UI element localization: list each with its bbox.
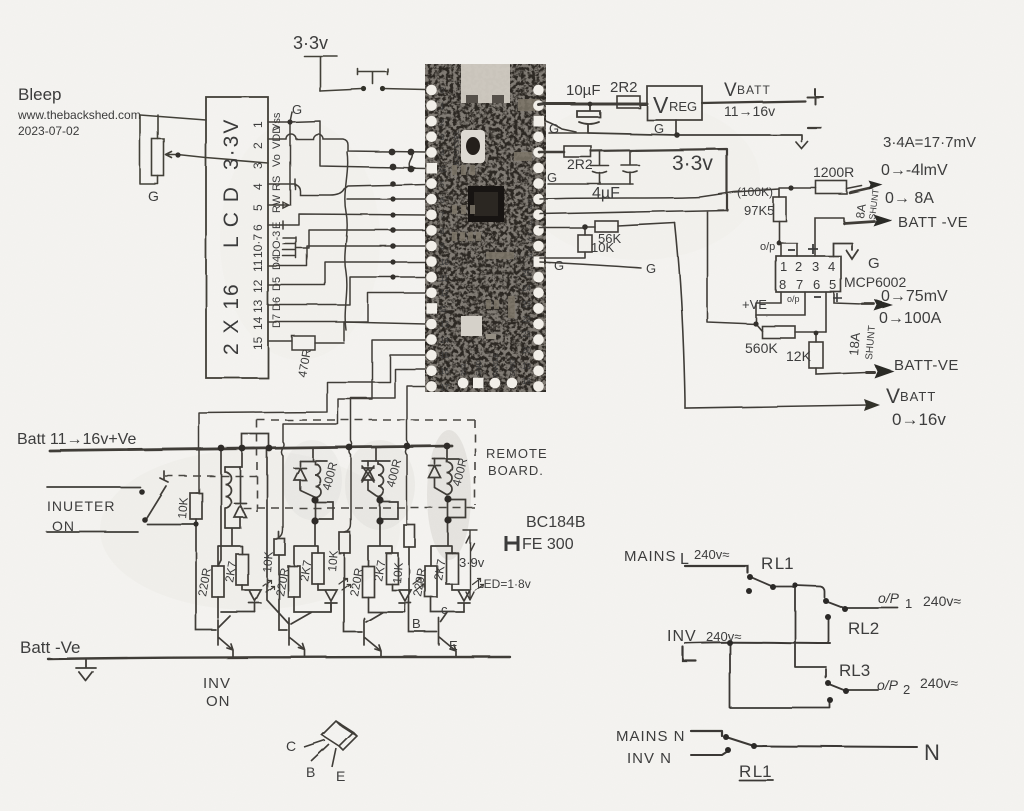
svg-text:10K: 10K	[591, 240, 614, 255]
svg-text:o/P: o/P	[877, 677, 899, 693]
bootsel button	[461, 130, 485, 163]
svg-text:GND: GND	[476, 360, 483, 376]
svg-text:1: 1	[905, 596, 912, 611]
arrow BATT-VE bottom	[866, 371, 874, 374]
3.3V supply bar	[304, 56, 337, 91]
LCD module box	[206, 97, 268, 378]
vreg box U2	[647, 86, 702, 120]
wire VREG ground rail	[589, 120, 808, 149]
wire pin5 to 75mV arrow	[834, 292, 862, 304]
wire D7 to pad12	[268, 293, 426, 322]
wire rl2 lower to inv	[827, 618, 829, 643]
relay contact RL2	[826, 601, 898, 609]
svg-text:(100K): (100K)	[737, 185, 773, 199]
wire RS to pad5	[295, 184, 426, 195]
svg-text:E: E	[336, 768, 345, 784]
resistor 10K right	[578, 235, 592, 252]
wire switch to 10K base	[147, 523, 196, 525]
svg-text:2023-07-02: 2023-07-02	[18, 124, 80, 138]
svg-text:13: 13	[440, 320, 449, 329]
svg-text:12: 12	[251, 279, 265, 293]
svg-text:L C D: L C D	[220, 185, 243, 248]
svg-text:G: G	[547, 170, 557, 185]
svg-text:BATT-VE: BATT-VE	[894, 357, 959, 374]
svg-text:3·9v: 3·9v	[459, 555, 485, 570]
junction dots left bundle	[175, 119, 414, 279]
cell2 coil feed	[312, 448, 314, 461]
svg-text:23: 23	[522, 300, 531, 309]
LED cell1	[242, 585, 261, 612]
relay contact RL3	[828, 684, 878, 692]
LCD signal names column	[271, 112, 283, 328]
svg-text:BC184B: BC184B	[526, 514, 586, 531]
pico left pin labels	[440, 86, 449, 392]
wire 12K to BATT-VE arrow	[816, 368, 866, 374]
minus pin6	[814, 296, 821, 298]
wavy bus vertical	[345, 152, 348, 330]
svg-text:24: 24	[522, 284, 531, 293]
svg-text:C: C	[286, 738, 296, 754]
cell4 bottoms to collector	[431, 597, 464, 622]
svg-text:560K: 560K	[745, 340, 778, 356]
led arrows cell3	[413, 578, 424, 590]
LED cell3	[392, 584, 411, 612]
svg-text:3·4A=17·7mV: 3·4A=17·7mV	[883, 134, 976, 151]
wire rl1 to rl2	[795, 585, 824, 597]
svg-text:0: 0	[440, 86, 445, 95]
resistor 1200R	[816, 181, 847, 194]
relay coil RL4	[433, 459, 459, 495]
svg-text:3·3V: 3·3V	[220, 118, 243, 170]
RL1 underline	[739, 779, 773, 781]
svg-text:G: G	[868, 255, 880, 272]
svg-text:11: 11	[251, 259, 265, 272]
hFE symbol	[506, 536, 518, 551]
resistor 2K7 cell4	[446, 553, 458, 584]
LED cell2	[318, 584, 337, 612]
svg-text:G: G	[549, 121, 559, 136]
resistor 2K7 cell3	[386, 553, 398, 584]
svg-text:17: 17	[440, 383, 449, 392]
resistor 12K	[809, 342, 823, 368]
wire pot top rail	[140, 115, 206, 139]
wire 470R to pad13	[315, 322, 426, 343]
svg-text:8: 8	[779, 277, 786, 292]
svg-text:5: 5	[440, 180, 445, 189]
svg-text:LED=1·8v: LED=1·8v	[477, 577, 531, 591]
crystal white chip	[461, 316, 482, 336]
svg-text:0→ 8A: 0→ 8A	[885, 190, 934, 207]
svg-text:INV: INV	[203, 675, 231, 692]
resistor 97K5	[773, 197, 786, 221]
svg-text:12K: 12K	[786, 348, 812, 364]
svg-text:RL3: RL3	[839, 661, 870, 680]
svg-text:B: B	[306, 764, 315, 780]
resistor 470R	[292, 336, 315, 350]
small components	[452, 99, 540, 318]
minus symbol	[808, 127, 821, 129]
svg-text:1: 1	[440, 102, 445, 111]
wire E to pad7	[283, 214, 426, 225]
svg-text:10·7: 10·7	[251, 234, 265, 258]
svg-text:6: 6	[251, 224, 265, 231]
wire to G label	[540, 262, 641, 268]
svg-text:7: 7	[796, 277, 803, 292]
relay junction dots	[723, 574, 849, 753]
transistor Q2	[289, 618, 305, 657]
svg-text:2R2: 2R2	[610, 79, 638, 96]
svg-text:Bleep: Bleep	[18, 85, 61, 104]
svg-text:240v≈: 240v≈	[920, 675, 958, 691]
pico bottom silk labels	[461, 353, 517, 378]
resistor 10K cell3	[339, 532, 350, 553]
wire VSYS thick to VREG	[539, 104, 647, 105]
svg-text:Batt 11→16v+Ve: Batt 11→16v+Ve	[17, 431, 136, 448]
svg-text:11: 11	[440, 274, 449, 283]
svg-text:1: 1	[251, 121, 265, 128]
wire inv N	[691, 751, 728, 755]
rail notch	[242, 434, 269, 448]
left pads column	[426, 85, 437, 392]
svg-text:5: 5	[829, 277, 836, 292]
wire Vss stub	[268, 112, 292, 122]
wire mains L	[685, 566, 748, 573]
wire 4uF ground	[548, 183, 633, 185]
diode D3	[362, 461, 378, 497]
cell2 middle wire	[294, 521, 318, 566]
wire pad B to +Ve	[540, 210, 756, 324]
wire pad A to 97K5 top	[540, 189, 779, 199]
svg-text:3: 3	[812, 259, 819, 274]
svg-text:MAINS: MAINS	[624, 548, 677, 565]
svg-text:25: 25	[522, 269, 531, 278]
svg-text:240v≈: 240v≈	[694, 547, 729, 562]
wire pin7 o/p	[756, 292, 805, 315]
arrow BATT-VE top	[844, 221, 874, 223]
wire pin8 +Ve	[756, 292, 781, 324]
wire wiper to LCD Vo	[178, 155, 268, 163]
svg-text:22: 22	[522, 315, 531, 324]
potentiometer RV1 body	[152, 139, 164, 176]
svg-text:4: 4	[828, 259, 835, 274]
led arrows cell1	[263, 580, 274, 592]
svg-text:15: 15	[251, 336, 265, 350]
svg-text:VDD: VDD	[271, 126, 283, 149]
wire Batt +Ve rail	[50, 446, 452, 451]
svg-text:10: 10	[440, 258, 449, 267]
svg-text:6: 6	[440, 196, 445, 205]
LED cell4	[452, 584, 470, 612]
svg-text:12: 12	[440, 289, 449, 298]
svg-text:4: 4	[251, 183, 265, 190]
transistor Q3	[364, 618, 381, 657]
svg-text:240v≈: 240v≈	[706, 629, 741, 644]
cell1 coil feed	[225, 448, 242, 467]
svg-text:R L1: R L1	[739, 762, 772, 781]
usb connector	[461, 64, 510, 103]
wire D5 to pad10	[268, 262, 426, 285]
svg-text:D4: D4	[271, 256, 283, 270]
wire mains N	[691, 731, 722, 736]
svg-text:FE 300: FE 300	[522, 536, 574, 553]
wire pin6	[816, 292, 826, 342]
wire pad15 staircase to cell1	[196, 355, 426, 493]
svg-text:V: V	[653, 92, 669, 118]
svg-text:3·3v: 3·3v	[293, 33, 328, 53]
svg-text:10K: 10K	[390, 562, 406, 584]
svg-text:14: 14	[251, 316, 265, 330]
cell2 bump	[315, 500, 333, 520]
svg-text:REMOTE: REMOTE	[486, 446, 548, 461]
capacitor 4uF a	[591, 151, 609, 184]
relay contact RL1	[750, 577, 795, 587]
svg-text:o/p: o/p	[787, 294, 800, 304]
wire RW stub	[268, 202, 289, 208]
resistor 56K	[595, 221, 618, 232]
svg-text:ON: ON	[52, 518, 75, 534]
svg-text:13: 13	[251, 299, 265, 313]
svg-text:G: G	[292, 102, 302, 117]
svg-text:E: E	[449, 638, 458, 653]
svg-text:10K: 10K	[325, 550, 341, 572]
svg-text:10K: 10K	[175, 497, 191, 519]
wire pot left loop	[140, 115, 158, 184]
wire 3V3 thick	[539, 151, 564, 154]
wire D0-3 comb	[283, 237, 296, 258]
svg-text:RW: RW	[271, 194, 283, 213]
button contact dots	[361, 86, 366, 91]
svg-text:7: 7	[440, 211, 445, 220]
cell3 coil feed	[375, 448, 377, 461]
svg-text:10µF: 10µF	[566, 82, 601, 99]
svg-text:3·3v: 3·3v	[672, 152, 713, 175]
diode D2	[294, 461, 315, 497]
junction dots rail	[139, 443, 451, 527]
svg-text:14: 14	[440, 336, 449, 345]
svg-text:D7: D7	[271, 314, 283, 328]
wire Vss to G pad	[290, 121, 426, 168]
svg-text:G: G	[554, 258, 564, 273]
svg-text:c: c	[441, 602, 448, 617]
op-amp MCP6002 box U1	[776, 256, 841, 292]
svg-text:240v≈: 240v≈	[923, 593, 961, 609]
resistor 2K7 cell2	[312, 553, 324, 584]
svg-text:3: 3	[251, 162, 265, 169]
resistor 10K cell1	[190, 493, 202, 519]
svg-text:o/p: o/p	[760, 241, 775, 253]
svg-text:1: 1	[780, 259, 787, 274]
ground vertical to RW	[283, 122, 290, 205]
svg-text:15: 15	[440, 351, 449, 360]
resistor 220R cell2	[288, 566, 300, 597]
svg-text:G: G	[654, 121, 664, 136]
svg-text:INUETER: INUETER	[47, 498, 115, 514]
svg-text:4: 4	[440, 149, 445, 158]
svg-text:97K5: 97K5	[744, 203, 774, 218]
svg-text:4µF: 4µF	[592, 185, 620, 202]
measure 3-9V arrow	[463, 530, 477, 600]
svg-text:18: 18	[522, 377, 531, 386]
cell4 middle wire	[431, 520, 452, 566]
wire pin3 to shunt top	[815, 218, 844, 256]
svg-text:INV N: INV N	[627, 750, 672, 767]
svg-text:SWCLK: SWCLK	[493, 353, 500, 378]
plus pin5	[833, 293, 842, 302]
cell1 pair bottom	[218, 528, 242, 566]
led arrows cell2	[339, 578, 350, 590]
rotated resistor value labels	[175, 456, 470, 597]
svg-text:2: 2	[903, 682, 910, 697]
wire rl1 common down	[795, 585, 826, 678]
cell2 collector vertical	[267, 448, 331, 624]
label L mark	[683, 647, 696, 661]
resistor 2R2 bottom	[564, 146, 591, 157]
wire pad6	[347, 198, 426, 200]
svg-text:ON: ON	[206, 693, 231, 710]
mcp pin numbers	[779, 259, 836, 292]
svg-text:RL2: RL2	[848, 619, 879, 638]
LCD pin numbers column	[251, 121, 265, 350]
wire VDD with hops to pad4	[268, 134, 426, 152]
wire long VBATT sense	[675, 223, 868, 408]
wire pad17 to cell4	[405, 386, 426, 525]
resistor 220R cell3	[362, 566, 374, 597]
remote board dashed outline	[165, 420, 475, 517]
wire VREG out to +	[702, 101, 805, 103]
svg-text:BATT: BATT	[900, 389, 936, 404]
capacitor 10uF	[577, 104, 600, 133]
svg-text:BOOTSEL: BOOTSEL	[454, 129, 461, 166]
pico right pin labels	[522, 269, 531, 386]
resistor 220R cell1	[212, 566, 224, 597]
wire 3.3V rail	[591, 149, 727, 210]
arrow 0-8A	[850, 188, 872, 193]
svg-text:N: N	[924, 740, 940, 765]
wire RS stub	[268, 179, 295, 189]
wire G pad to ground	[545, 121, 576, 132]
wire E stub	[268, 221, 283, 229]
svg-text:G: G	[148, 188, 159, 204]
svg-text:2: 2	[251, 142, 265, 149]
cell3 middle wire	[368, 521, 392, 566]
wire 3.3V to button	[320, 89, 362, 91]
right pads column	[533, 85, 544, 392]
capacitor 4uF b	[621, 151, 639, 184]
ground symbol batt-ve	[76, 659, 96, 681]
svg-text:Vo: Vo	[271, 154, 283, 167]
relay coil RL3	[362, 461, 390, 497]
Raspberry Pi Pico board photo	[425, 64, 546, 392]
wire INV line	[685, 641, 830, 644]
svg-text:DO-3: DO-3	[271, 231, 283, 257]
minus pin2	[788, 249, 795, 251]
svg-text:3V3: 3V3	[461, 363, 468, 376]
svg-text:REG: REG	[669, 99, 697, 114]
wire LCD15 to 470R	[268, 340, 292, 342]
wire inv node down to rl3	[730, 643, 830, 708]
svg-text:5: 5	[251, 204, 265, 211]
svg-text:0→-4lmV: 0→-4lmV	[881, 162, 948, 179]
pot wiper arrow	[166, 152, 178, 158]
svg-text:SWIO: SWIO	[510, 358, 517, 377]
svg-text:6: 6	[813, 277, 820, 292]
svg-text:A0 A1 A2 A3: A0 A1 A2 A3	[528, 197, 535, 258]
relay coil RL1	[225, 467, 231, 528]
svg-text:10K: 10K	[260, 551, 276, 573]
transistor package sketch	[304, 721, 357, 767]
svg-text:9: 9	[440, 242, 445, 251]
svg-text:1200R: 1200R	[813, 164, 854, 180]
wire 10uF ground to G	[549, 132, 589, 134]
svg-text:20: 20	[522, 346, 531, 355]
wire D6 to pad11	[268, 277, 426, 305]
svg-text:BOARD.: BOARD.	[488, 463, 544, 478]
transistor Q1	[218, 616, 233, 657]
wire Batt -Ve rail	[48, 657, 510, 659]
resistor 560K	[762, 326, 795, 338]
smudge patches	[100, 450, 400, 610]
svg-text:V: V	[886, 385, 900, 408]
cell3 bottoms to collector	[366, 597, 405, 622]
cell4 coil feed	[446, 446, 448, 459]
wire D4 stub	[268, 246, 426, 266]
inverter switch lever	[145, 471, 168, 520]
svg-text:18A: 18A	[846, 332, 863, 357]
push button S1	[358, 69, 388, 84]
led arrows cell4	[472, 578, 483, 590]
rp2040 chip	[468, 186, 504, 222]
bottom pads row	[458, 378, 518, 389]
resistor 2K7 cell1	[236, 554, 248, 585]
transistor Q4	[439, 618, 456, 657]
wire pins1-2 to o/p node	[779, 243, 797, 256]
svg-text:+VE: +VE	[742, 297, 767, 312]
svg-text:G: G	[440, 165, 446, 174]
svg-text:0→75mV: 0→75mV	[881, 288, 948, 305]
plus pin3	[808, 244, 818, 254]
wire pad16 staircase to cell3	[344, 369, 426, 532]
diode D1	[234, 467, 246, 528]
svg-text:G: G	[646, 261, 656, 276]
svg-text:3: 3	[440, 133, 445, 142]
wire squiggle pad4 to G pad	[409, 152, 412, 169]
svg-text:0→16v: 0→16v	[892, 410, 946, 429]
svg-text:2: 2	[795, 259, 802, 274]
svg-text:2R2: 2R2	[567, 156, 593, 172]
svg-text:BATT -VE: BATT -VE	[898, 214, 968, 231]
svg-text:MAINS N: MAINS N	[616, 728, 686, 745]
svg-text:G: G	[440, 305, 446, 314]
svg-text:D6: D6	[271, 297, 283, 311]
relay coil RL2	[300, 461, 327, 497]
svg-text:11→16v: 11→16v	[724, 103, 775, 119]
resistor 10K cell4	[404, 525, 415, 547]
relay contact RL1 neutral	[726, 737, 917, 747]
svg-text:www.thebackshed.com: www.thebackshed.com	[17, 108, 141, 122]
wire pad C to 56K	[540, 227, 585, 229]
svg-text:o/P: o/P	[878, 590, 900, 606]
svg-text:0→100A: 0→100A	[879, 310, 942, 327]
diode D4	[429, 459, 447, 495]
svg-text:V: V	[724, 80, 737, 101]
svg-text:8: 8	[440, 227, 445, 236]
cell3 bump	[380, 500, 398, 520]
wire pad14 staircase to cell2	[279, 340, 426, 538]
inverter switch lines	[47, 487, 140, 532]
svg-text:Batt -Ve: Batt -Ve	[20, 638, 80, 657]
arrow 0-75mV	[862, 303, 874, 306]
LCD rotated label 2X16 LCD 3.3V	[220, 118, 243, 355]
